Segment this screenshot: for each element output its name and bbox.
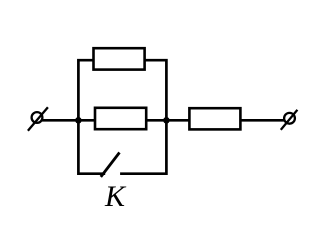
resistor R2 (middle branch)	[95, 108, 146, 129]
terminal right (slashed-circle clamp symbol)	[281, 110, 298, 130]
wire: resistor R3 to right terminal	[240, 119, 284, 122]
wire: left terminal to left junction	[42, 119, 80, 122]
resistor R3 (series, right)	[189, 108, 240, 129]
resistor R1 (top branch)	[94, 48, 145, 69]
terminal left (slashed-circle clamp symbol)	[28, 107, 48, 131]
wire: left vertical riser (junction up to top branch)	[78, 60, 93, 121]
wire: left junction down to bottom branch	[78, 119, 105, 173]
wire: top branch right stub down to right junction	[145, 60, 167, 121]
wire: resistor R2 to right junction	[146, 119, 166, 122]
node: right junction	[163, 117, 170, 124]
wire: bottom branch right segment up to right junction	[120, 119, 166, 173]
svg-text:К: К	[104, 180, 127, 213]
wire: right junction to resistor R3	[166, 119, 189, 122]
switch K blade (open)	[101, 153, 120, 177]
wire: left junction to resistor R2	[78, 119, 95, 122]
node: left junction	[75, 117, 82, 124]
